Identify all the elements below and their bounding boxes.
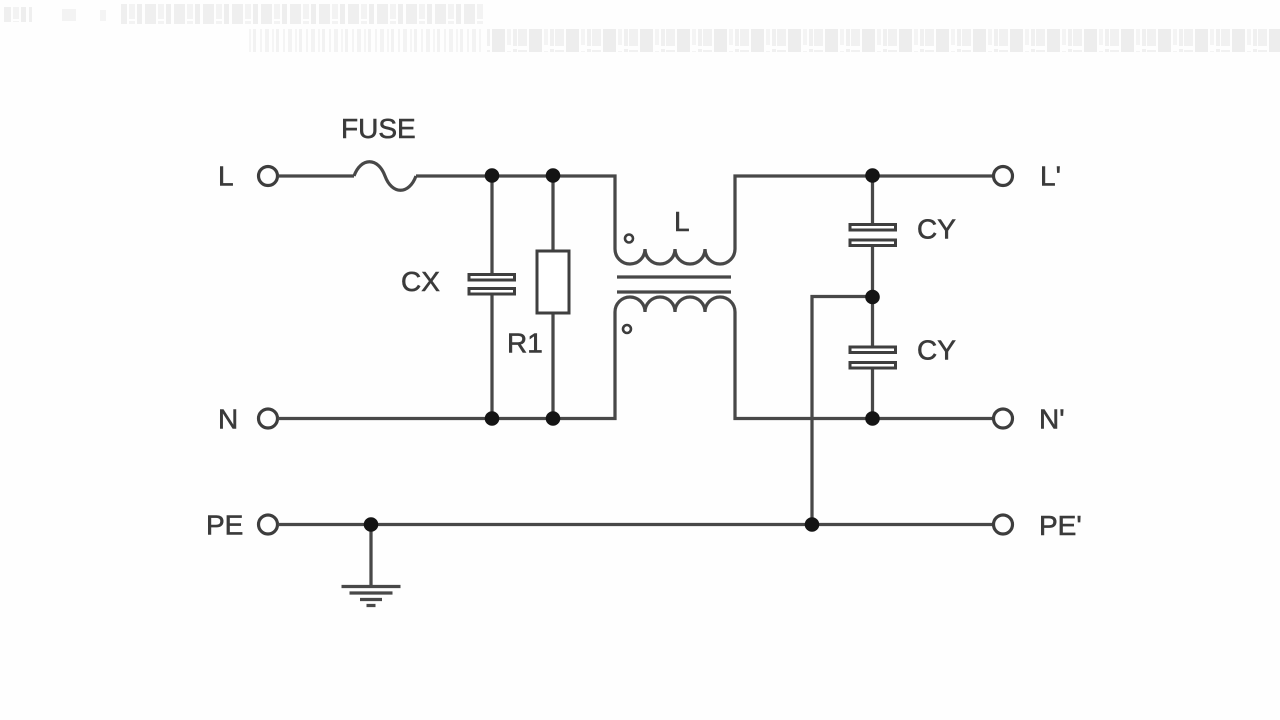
- svg-text:L: L: [674, 206, 690, 237]
- faded watermark band top-right: [246, 29, 1280, 52]
- ground bars: [342, 587, 401, 606]
- svg-text:N: N: [218, 404, 238, 435]
- terminal N: [259, 409, 278, 428]
- wire CX branch: [490, 176, 493, 419]
- fuse FUSE: [354, 162, 416, 191]
- junction node N/CX: [485, 411, 500, 426]
- svg-text:PE: PE: [206, 510, 243, 541]
- wire choke top-right to terminal L': [735, 176, 993, 249]
- capacitor CX plates: [469, 275, 515, 295]
- inductor L top winding: [615, 249, 735, 264]
- terminal PE: [259, 515, 278, 534]
- junction node L/CX: [485, 168, 500, 183]
- capacitor CY2 plates: [850, 347, 896, 368]
- wire L to fuse: [278, 174, 354, 177]
- capacitor CY1 plates: [850, 225, 896, 246]
- junction node N/R1: [546, 411, 561, 426]
- wire PE to terminal PE': [278, 523, 993, 526]
- inductor L core bars: [617, 277, 731, 292]
- junction node CY midpoint: [865, 290, 880, 305]
- polarity dot bottom winding: [623, 325, 631, 333]
- junction node PE/CY: [805, 517, 820, 532]
- ground stem: [369, 525, 372, 586]
- wire fuse to choke top-left: [416, 176, 615, 249]
- wire R1 branch top: [551, 176, 554, 251]
- svg-text:CY: CY: [917, 214, 956, 245]
- svg-text:R1: R1: [507, 328, 543, 359]
- inductor L bottom winding: [615, 297, 735, 312]
- junction node L'/CY1: [865, 168, 880, 183]
- polarity dot top winding: [625, 235, 633, 243]
- svg-text:PE': PE': [1039, 510, 1082, 541]
- wire N to choke bottom-left: [278, 312, 615, 419]
- wire choke bottom-right to terminal N': [735, 312, 993, 419]
- terminal N': [994, 409, 1013, 428]
- wire R1 branch bottom: [551, 313, 554, 419]
- terminal L: [259, 167, 278, 186]
- terminal PE': [994, 515, 1013, 534]
- svg-text:L: L: [218, 161, 234, 192]
- terminal L': [994, 167, 1013, 186]
- junction node PE/ground: [364, 517, 379, 532]
- wire CY2 branch: [871, 297, 874, 419]
- svg-text:L': L': [1040, 161, 1061, 192]
- svg-text:CX: CX: [401, 266, 440, 297]
- junction node L/R1: [546, 168, 561, 183]
- junction node N'/CY2: [865, 411, 880, 426]
- svg-text:CY: CY: [917, 335, 956, 366]
- resistor R1 body: [537, 251, 569, 313]
- svg-text:N': N': [1039, 404, 1065, 435]
- wire mid-junction to PE: [812, 297, 873, 525]
- faded watermark band top-left: [4, 4, 485, 24]
- svg-text:FUSE: FUSE: [341, 113, 416, 144]
- wire CY1 branch: [871, 176, 874, 297]
